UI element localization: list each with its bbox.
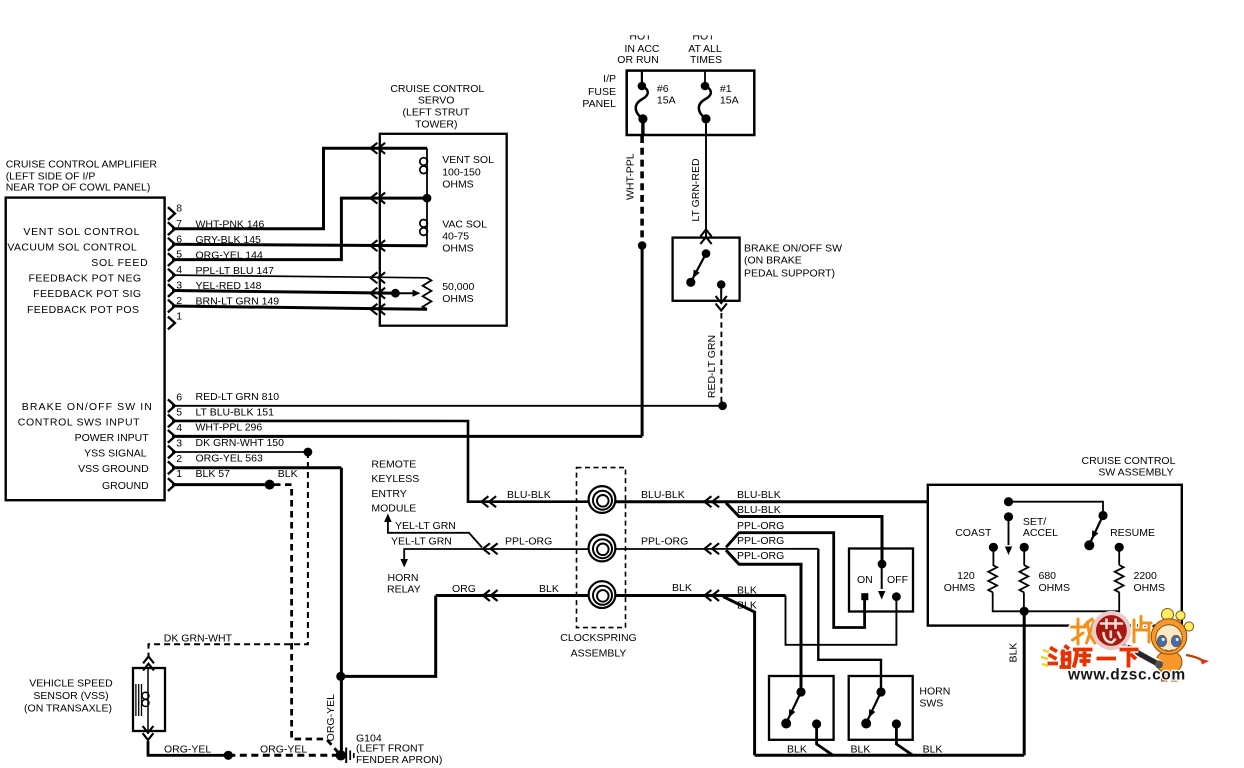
svg-text:ORG-YEL 563: ORG-YEL 563 [196,453,263,465]
svg-text:40-75: 40-75 [442,230,469,242]
svg-text:RED-LT GRN 810: RED-LT GRN 810 [196,391,280,403]
svg-text:RESUME: RESUME [1110,527,1155,539]
svg-text:HORN: HORN [919,685,950,697]
on/off switch contacts and arm [861,560,901,601]
svg-text:VEHICLE SPEED: VEHICLE SPEED [29,678,113,690]
amplifier upper pin labels [7,226,148,316]
svg-text:HORN: HORN [388,572,419,584]
label VEHICLE SPEED SENSOR (VSS) (ON TRANSAXLE) [24,678,113,715]
wire RED-LT GRN 810 pin 6 row [172,391,723,406]
svg-text:BLK: BLK [737,599,757,611]
set/accel switch [1004,512,1058,555]
I/P fuse panel box [627,71,755,135]
svg-text:ENTRY: ENTRY [371,488,406,500]
svg-text:CRUISE CONTROL: CRUISE CONTROL [390,83,484,95]
wire BLK from switch assembly to ground bus [1008,611,1025,755]
clockspring coil 1 [589,486,616,513]
svg-text:SWS: SWS [919,698,943,710]
amplifier lower pins 6-1 [168,391,182,491]
label CLOCKSPRING ASSEMBLY [560,632,636,659]
svg-text:SENSOR (VSS): SENSOR (VSS) [33,690,108,702]
ground bus wire BLK [755,754,1025,757]
label HOT IN ACC OR RUN (left feed) [617,25,662,66]
connector arrows servo row 2 [371,193,378,204]
junction DK GRN-WHT [304,448,313,457]
svg-text:YSS SIGNAL: YSS SIGNAL [84,447,147,459]
wire DK GRN-WHT dashed down to VSS [149,452,308,656]
svg-text:BLU-BLK: BLU-BLK [737,504,781,516]
wire to resume switch [1009,502,1104,512]
svg-text:www.dzsc.com: www.dzsc.com [1067,667,1186,684]
svg-text:BLK: BLK [278,468,298,480]
junction BLK 57 [265,480,275,490]
svg-text:CLOCKSPRING: CLOCKSPRING [560,632,636,644]
wire LT BLU-BLK 151 pin 5 to clockspring BLU-BLK [172,406,480,501]
svg-text:1: 1 [176,311,182,323]
svg-text:POWER INPUT: POWER INPUT [75,432,150,444]
junction RED-LT GRN to pin 6 row [718,402,727,411]
svg-text:KEYLESS: KEYLESS [371,473,419,485]
svg-text:ASSEMBLY: ASSEMBLY [571,648,627,660]
svg-text:5: 5 [176,407,182,419]
svg-text:FUSE: FUSE [588,86,616,98]
feedback potentiometer 50,000 OHMS [423,278,475,310]
svg-text:VSS GROUND: VSS GROUND [78,463,149,475]
svg-text:OHMS: OHMS [442,179,474,191]
wire BLU-BLK branch to on/off switch [726,503,882,560]
svg-text:OFF: OFF [887,574,908,586]
svg-text:OR RUN: OR RUN [617,54,658,66]
connector arrows into VSS top [143,657,154,664]
svg-text:MODULE: MODULE [371,503,416,515]
svg-text:15A: 15A [720,95,739,107]
svg-text:#1: #1 [720,83,732,95]
wire WHT-PNK 146 pin 7 to servo vent sol [172,148,427,230]
junction ORG wire / ORG-YEL [336,672,345,681]
svg-text:BLU-BLK: BLU-BLK [641,489,685,501]
wire BLK clockspring row 3 right [616,582,786,596]
svg-text:REMOTE: REMOTE [371,459,416,471]
svg-text:PPL-ORG: PPL-ORG [505,536,552,548]
vent solenoid coil VENT SOL 100-150 OHMS [420,148,494,198]
svg-text:GROUND: GROUND [102,480,149,492]
label HORN RELAY [387,572,421,596]
label BRAKE ON/OFF SW (ON BRAKE PEDAL SUPPORT) [744,242,842,279]
resistor 120 OHMS [944,547,1024,611]
clockspring dashed box [577,468,626,628]
svg-text:YEL-RED 148: YEL-RED 148 [196,280,262,292]
wire LT GRN-RED from fuse #1 to brake switch [705,137,707,238]
label G104 (LEFT FRONT FENDER APRON) [356,732,442,766]
svg-text:2: 2 [176,453,182,465]
svg-text:WHT-PPL 296: WHT-PPL 296 [196,422,263,434]
svg-text:RELAY: RELAY [387,584,421,596]
connector arrows servo row 5 [371,288,378,299]
svg-text:VACUUM SOL CONTROL: VACUUM SOL CONTROL [7,242,137,254]
label CRUISE CONTROL SERVO (LEFT STRUT TOWER) [390,83,484,130]
svg-text:(ON TRANSAXLE): (ON TRANSAXLE) [24,703,112,715]
svg-text:RED-LT GRN: RED-LT GRN [706,335,718,398]
svg-text:VAC SOL: VAC SOL [442,218,487,230]
svg-text:(LEFT SIDE OF I/P: (LEFT SIDE OF I/P [6,170,96,182]
svg-text:BRAKE ON/OFF SW: BRAKE ON/OFF SW [744,242,842,254]
svg-text:AT ALL: AT ALL [688,43,722,55]
amplifier lower pin labels [18,401,153,492]
svg-text:ORG-YEL: ORG-YEL [260,743,307,755]
cruise control switch assembly box [928,485,1182,626]
wire ORG / BLK clockspring row 3 left [436,583,589,596]
labels BLK under horn switches [787,744,942,756]
connector arrows servo row 4 [371,272,378,283]
wire WHT-PPL 296 pin 4 row [172,422,642,437]
svg-text:VENT SOL CONTROL: VENT SOL CONTROL [23,226,140,238]
svg-text:I/P: I/P [603,73,616,85]
VSS magnet and coil [136,668,149,731]
left horn switch contacts and arm [781,687,833,755]
svg-text:3: 3 [176,437,182,449]
svg-text:SERVO: SERVO [418,95,455,107]
clockspring coil 3 [589,581,616,608]
wire WHT-PPL solid down to pin 4 row [641,246,644,437]
svg-text:ORG: ORG [452,583,476,595]
connector arrows row 2 right [705,543,712,554]
wire ORG-YEL vertical to G104 ground [340,468,343,756]
svg-text:GRY-BLK 145: GRY-BLK 145 [196,234,262,246]
wire PPL-ORG upper branch from ON contact [726,520,865,627]
fuse #1 15A [699,71,739,137]
wire ORG-YEL 563 pin 2 row [172,453,341,468]
svg-text:ON: ON [857,574,873,586]
svg-text:(ON BRAKE: (ON BRAKE [744,254,802,266]
svg-text:VENT SOL: VENT SOL [442,154,494,166]
svg-text:LT GRN-RED: LT GRN-RED [690,158,702,222]
svg-text:DK GRN-WHT: DK GRN-WHT [164,632,233,644]
wire RED-LT GRN dashed from brake switch [720,313,722,403]
svg-text:4: 4 [176,422,182,434]
connector arrows row 1 left [482,496,489,507]
wire BLK to OFF contact [786,596,897,645]
wire GRY-BLK 145 pin 6 to servo vac sol bottom [172,234,427,246]
svg-text:BLK 57: BLK 57 [196,468,231,480]
wire BRN-LT GRN 149 pin 2 to servo pot bottom [172,296,427,310]
wire ORG-YEL 144 pin 5 to servo sol feed [172,198,427,261]
wire BLK dashed to G104 [274,485,339,754]
wire ORG down to ORG-YEL junction [343,596,436,677]
left horn switch box [769,676,834,740]
connector arrows servo row 6 [371,304,378,315]
watermark dzsc logo [1041,609,1209,684]
wire YEL-LT GRN up-arrow to remote keyless entry module [384,514,482,548]
svg-text:BLK: BLK [672,582,692,594]
connector arrows below brake switch [716,304,727,311]
svg-text:ORG-YEL: ORG-YEL [164,743,211,755]
svg-text:TIMES: TIMES [690,54,722,66]
svg-text:PANEL: PANEL [582,98,616,110]
label REMOTE KEYLESS ENTRY MODULE [371,459,419,515]
label HOT AT ALL TIMES (right feed) [683,25,725,66]
svg-text:OHMS: OHMS [442,293,474,305]
junction ORG-YEL splice [224,751,233,760]
connector arrows servo row 3 [371,240,378,251]
wire PPL-ORG lower branch to left horn switch [726,550,801,689]
svg-text:BRAKE ON/OFF SW IN: BRAKE ON/OFF SW IN [22,401,153,413]
on/off switch box [849,549,913,612]
amplifier upper pins 8-1 [168,203,182,330]
svg-text:COAST: COAST [955,527,992,539]
connector arrows servo row 1 [371,143,378,154]
svg-text:SOL FEED: SOL FEED [91,257,148,269]
svg-text:BRN-LT GRN 149: BRN-LT GRN 149 [196,296,280,308]
brake on/off switch box [673,238,740,301]
svg-text:4: 4 [176,264,182,276]
svg-text:OHMS: OHMS [944,582,976,594]
label CRUISE CONTROL SW ASSEMBLY [1082,455,1176,479]
label I/P FUSE PANEL [582,73,616,110]
svg-text:8: 8 [176,203,182,215]
svg-text:(LEFT STRUT: (LEFT STRUT [403,107,470,119]
svg-text:FEEDBACK POT SIG: FEEDBACK POT SIG [33,288,141,300]
wire PPL-ORG clockspring row 2 right [616,535,819,549]
wire DK GRN-WHT 150 pin 3 row [172,437,308,452]
wire PPL-ORG main to right horn switch [818,549,881,689]
svg-text:1: 1 [176,468,182,480]
svg-text:120: 120 [957,570,975,582]
vehicle speed sensor box [133,668,165,731]
svg-text:680: 680 [1039,570,1057,582]
connector arrows into brake switch [700,230,711,237]
right horn switch contacts and arm [861,687,913,755]
svg-text:YEL-LT GRN: YEL-LT GRN [395,520,456,532]
svg-text:LT BLU-BLK 151: LT BLU-BLK 151 [196,406,275,418]
svg-text:BLU-BLK: BLU-BLK [737,489,781,501]
connector arrows out of VSS bottom [143,733,154,740]
brake switch contacts and arm [686,249,725,300]
svg-text:ORG-YEL: ORG-YEL [325,694,337,741]
svg-text:BLK: BLK [1008,643,1020,663]
svg-text:PPL-ORG: PPL-ORG [737,535,784,547]
svg-text:BLK: BLK [539,583,559,595]
pot wiper arrow [391,289,421,298]
wire PPL-ORG clockspring row 2 left [480,536,589,550]
svg-text:TOWER): TOWER) [415,118,457,130]
connector arrows row 3 right [705,590,712,601]
svg-text:PPL-ORG: PPL-ORG [641,536,688,548]
svg-text:(LEFT FRONT: (LEFT FRONT [356,743,425,755]
wire YEL-LT GRN down-arrow to horn relay [391,536,480,568]
svg-text:CONTROL SWS INPUT: CONTROL SWS INPUT [18,417,140,429]
svg-text:IN ACC: IN ACC [624,43,659,55]
svg-text:PEDAL SUPPORT): PEDAL SUPPORT) [744,267,835,279]
label CRUISE CONTROL AMPLIFIER (LEFT SIDE OF I/P NEAR TOP OF COWL PANEL) [6,159,158,194]
vacuum solenoid coil VAC SOL 40-75 OHMS [420,198,487,254]
clockspring coil 2 [589,535,616,562]
svg-text:YEL-LT GRN: YEL-LT GRN [391,536,452,548]
svg-text:BLK: BLK [737,584,757,596]
connector arrows row 3 left [483,590,490,601]
cruise control amplifier box [6,198,165,501]
svg-text:FEEDBACK POT POS: FEEDBACK POT POS [27,304,139,316]
svg-text:OHMS: OHMS [442,242,474,254]
wire YEL-RED 148 pin 3 to servo pot wiper [172,280,395,293]
resistor 680 OHMS [1020,543,1071,612]
fuse #6 15A [636,71,676,136]
wire ORG-YEL dashed to G104 [228,743,338,755]
svg-text:DK GRN-WHT 150: DK GRN-WHT 150 [196,437,285,449]
svg-text:CRUISE CONTROL AMPLIFIER: CRUISE CONTROL AMPLIFIER [6,159,158,171]
wire BLU-BLK clockspring row 1 left [480,489,589,502]
ground G104 [336,748,354,764]
svg-text:WHT-PNK 146: WHT-PNK 146 [196,218,265,230]
wire BLK branch to ground bus [723,597,757,756]
connector arrows row 2 left [483,543,490,554]
labels ON OFF [857,574,908,586]
wire BLU-BLK clockspring row 1 right to switch assembly [616,489,929,502]
svg-text:FEEDBACK POT NEG: FEEDBACK POT NEG [29,273,142,285]
junction resistor bus [1020,607,1029,616]
svg-text:SW ASSEMBLY: SW ASSEMBLY [1098,467,1173,479]
svg-text:CRUISE CONTROL: CRUISE CONTROL [1082,455,1176,467]
svg-text:FENDER APRON): FENDER APRON) [356,754,442,766]
svg-text:ACCEL: ACCEL [1023,527,1058,539]
wire ORG-YEL from VSS [148,741,228,755]
right horn switch box [849,676,913,740]
coast contact [955,527,998,552]
svg-text:PPL-ORG: PPL-ORG [737,520,784,532]
junction BLU-BLK feed [1004,497,1013,506]
wire WHT-PPL dashed from fuse #6 [640,136,644,246]
svg-text:#6: #6 [657,83,669,95]
svg-text:15A: 15A [657,95,676,107]
svg-text:100-150: 100-150 [442,166,481,178]
svg-text:BLU-BLK: BLU-BLK [507,489,551,501]
resistor 2200 OHMS [1024,543,1165,612]
label HORN SWS [919,685,950,709]
cruise control servo box [380,134,507,326]
splice on WHT-PPL wire [638,241,647,250]
svg-text:NEAR TOP OF COWL PANEL): NEAR TOP OF COWL PANEL) [6,182,151,194]
svg-text:ORG-YEL 144: ORG-YEL 144 [196,249,263,261]
svg-text:OHMS: OHMS [1134,582,1166,594]
connector arrows row 1 right [705,496,712,507]
svg-text:WHT-PPL: WHT-PPL [625,153,637,200]
svg-text:6: 6 [176,391,182,403]
resume switch [1084,511,1155,550]
svg-text:2200: 2200 [1134,570,1158,582]
wire BLK 57 pin 1 row [172,468,298,485]
svg-text:PPL-LT BLU 147: PPL-LT BLU 147 [196,265,275,277]
svg-text:50,000: 50,000 [442,281,474,293]
svg-text:PPL-ORG: PPL-ORG [737,550,784,562]
svg-text:OHMS: OHMS [1039,582,1071,594]
wire PPL-LT BLU 147 pin 4 to servo pot top [172,265,427,278]
junction vent/vac solenoid [423,194,432,203]
